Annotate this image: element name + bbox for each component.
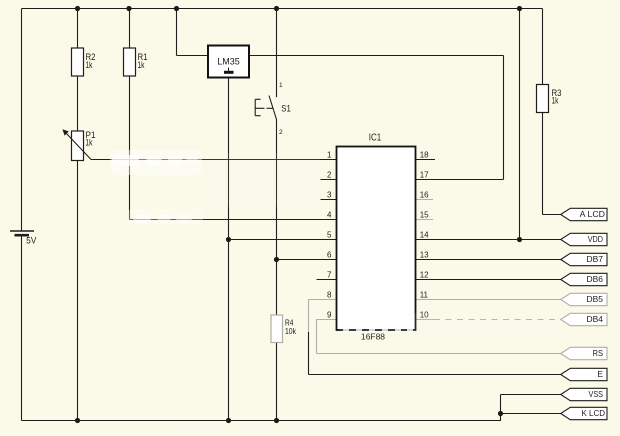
svg-text:5V: 5V <box>26 236 36 246</box>
connector K LCD <box>561 407 607 419</box>
svg-text:1k: 1k <box>552 96 559 106</box>
wire R1 down to pin4 <box>129 76 131 220</box>
svg-text:11: 11 <box>420 291 429 300</box>
svg-text:VDD: VDD <box>588 234 603 244</box>
watermark blob left row2 over pin4 wire <box>127 209 203 225</box>
resistor R3 <box>537 85 549 113</box>
wire VSS feed <box>501 394 563 396</box>
svg-text:S1: S1 <box>281 103 291 113</box>
svg-text:9: 9 <box>327 311 332 320</box>
svg-text:A LCD: A LCD <box>580 209 605 219</box>
wire R3 bottom lead <box>542 113 544 215</box>
connector E <box>561 368 607 380</box>
wire pin1 net from P1 wiper <box>91 159 337 161</box>
svg-text:13: 13 <box>420 251 429 260</box>
wire pin5 net <box>229 239 338 241</box>
connector DB6 <box>561 273 607 285</box>
connector VDD <box>561 233 607 245</box>
wire R2 top lead <box>77 9 79 49</box>
svg-text:RS: RS <box>593 348 604 358</box>
resistor R1 <box>124 48 136 76</box>
connector DB7 <box>561 253 607 265</box>
pin16 stub <box>416 199 434 201</box>
IC pin numbers left <box>327 151 332 320</box>
wire RS net <box>317 353 563 355</box>
svg-text:3: 3 <box>327 191 332 200</box>
wire pin10 DB4 net <box>416 319 435 321</box>
watermark faint band over 16F88 label <box>340 313 560 335</box>
svg-text:16: 16 <box>420 191 429 200</box>
wire left rail upper <box>21 9 23 232</box>
svg-text:12: 12 <box>420 271 429 280</box>
wire pin8 horizontal <box>309 299 338 301</box>
svg-text:14: 14 <box>420 231 429 240</box>
wire LM35 left lead riser <box>176 9 178 56</box>
connector VSS <box>561 388 607 400</box>
connector DB4 <box>561 313 607 325</box>
svg-text:DB5: DB5 <box>587 294 604 304</box>
switch S1 <box>255 96 276 120</box>
pin18 stub <box>416 159 436 161</box>
resistor R2 <box>72 48 84 76</box>
sensor LM35 <box>208 46 249 78</box>
svg-text:E: E <box>597 369 603 379</box>
svg-text:17: 17 <box>420 171 429 180</box>
pin2 stub <box>321 179 338 181</box>
wire pin14 VDD net <box>416 239 563 241</box>
pin15 stub <box>416 219 434 221</box>
wire VSS vertical <box>500 395 502 414</box>
wire pin6 net <box>277 259 338 261</box>
wire P1 to ground rail <box>77 161 79 421</box>
pin3 stub <box>321 199 338 201</box>
svg-text:4: 4 <box>327 211 332 220</box>
potentiometer P1 <box>62 129 95 160</box>
svg-text:6: 6 <box>327 251 332 260</box>
wire top rail <box>22 8 543 10</box>
wire pin9 horizontal <box>317 319 338 321</box>
wire S1 top lead <box>276 9 278 98</box>
svg-text:10k: 10k <box>285 326 297 336</box>
connector RS <box>561 347 607 359</box>
wire pin8 E drop upper <box>308 300 310 333</box>
wire LM35 output <box>249 55 504 57</box>
svg-text:2: 2 <box>279 129 283 136</box>
wire pin10 DB4 net dashed under watermark <box>434 319 562 321</box>
svg-text:1: 1 <box>279 82 283 89</box>
wire pin4 net <box>130 219 338 221</box>
svg-text:VSS: VSS <box>589 389 604 399</box>
svg-text:DB6: DB6 <box>587 274 604 284</box>
svg-text:2: 2 <box>327 171 332 180</box>
wire S1 bottom to R4 <box>276 119 278 314</box>
wire LM35 ground drop <box>228 78 230 421</box>
svg-text:15: 15 <box>420 211 429 220</box>
wire pin8 E drop lower <box>308 332 310 375</box>
svg-text:18: 18 <box>420 151 429 160</box>
pin7 stub <box>317 279 338 281</box>
svg-text:LM35: LM35 <box>217 57 240 67</box>
svg-text:1k: 1k <box>86 60 93 70</box>
watermark blob left row1 <box>110 150 320 207</box>
svg-text:1k: 1k <box>138 60 145 70</box>
wire LM35 output drop <box>503 56 505 180</box>
wire bottom corner riser <box>500 414 502 422</box>
watermark bottom faint <box>185 424 395 435</box>
wire K LCD feed <box>501 413 563 415</box>
IC pin numbers right <box>420 151 429 320</box>
wire pin12 DB6 net <box>416 279 563 281</box>
wire pin11 DB5 net <box>416 299 563 301</box>
svg-text:K LCD: K LCD <box>582 408 606 418</box>
svg-text:IC1: IC1 <box>369 133 382 144</box>
resistor R4 <box>271 315 283 343</box>
battery B1 5V <box>10 231 34 235</box>
wire left rail lower <box>21 235 23 421</box>
wire pin17 net <box>416 179 504 181</box>
wire LM35 left lead <box>177 55 209 57</box>
wire VDD rail drop <box>519 9 521 240</box>
svg-text:8: 8 <box>327 291 332 300</box>
svg-text:1: 1 <box>327 151 332 160</box>
svg-text:1k: 1k <box>86 138 93 148</box>
wire R1 top lead <box>129 9 131 49</box>
svg-text:DB7: DB7 <box>587 254 604 264</box>
svg-text:7: 7 <box>327 271 332 280</box>
wire A LCD feed <box>543 214 563 216</box>
wire E net <box>309 374 563 376</box>
wire pin9 RS drop <box>316 320 318 354</box>
IC U1 PIC16F88 <box>337 133 416 342</box>
wire bottom rail <box>22 420 501 422</box>
watermark dash row over IC bottom edge <box>343 328 413 332</box>
connector DB5 <box>561 293 607 305</box>
wire pin13 DB7 net <box>416 259 563 261</box>
wire R3 top lead <box>542 9 544 85</box>
svg-text:5: 5 <box>327 231 332 240</box>
connector A LCD <box>561 208 607 220</box>
wire R2 to P1 <box>77 76 79 131</box>
wire R4 to ground rail <box>276 342 278 421</box>
svg-text:DB4: DB4 <box>587 314 604 324</box>
